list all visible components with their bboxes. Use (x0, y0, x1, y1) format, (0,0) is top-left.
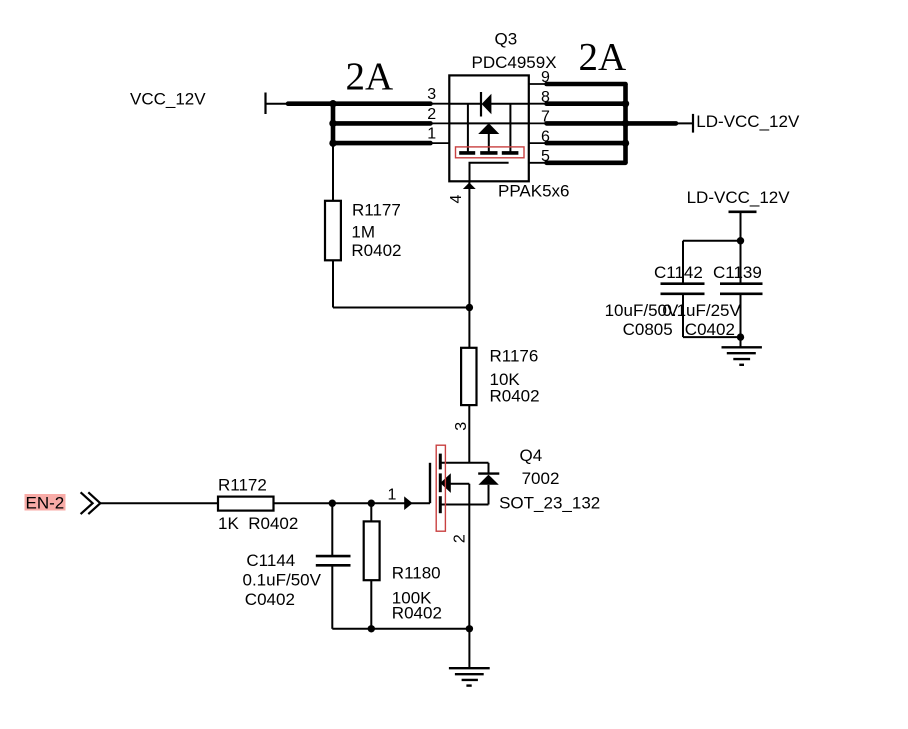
svg-text:SOT_23_132: SOT_23_132 (499, 493, 600, 512)
svg-text:4: 4 (448, 194, 465, 203)
svg-text:3: 3 (427, 86, 436, 103)
svg-text:C0402: C0402 (685, 320, 735, 339)
svg-text:C1144: C1144 (246, 551, 295, 570)
svg-text:R1172: R1172 (218, 476, 267, 495)
svg-text:3: 3 (453, 422, 470, 431)
svg-text:2: 2 (452, 534, 469, 543)
svg-text:C1139: C1139 (713, 263, 762, 282)
svg-text:1: 1 (427, 126, 436, 143)
svg-text:C0805: C0805 (623, 320, 673, 339)
svg-text:C0402: C0402 (245, 590, 295, 609)
svg-text:R1180: R1180 (392, 564, 441, 583)
svg-text:R1177: R1177 (352, 201, 401, 220)
svg-text:R0402: R0402 (351, 241, 401, 260)
svg-text:0.1uF/25V: 0.1uF/25V (662, 301, 741, 320)
svg-text:PPAK5x6: PPAK5x6 (498, 182, 570, 201)
svg-text:R1176: R1176 (490, 347, 539, 366)
svg-text:C1142: C1142 (654, 263, 703, 282)
svg-text:LD-VCC_12V: LD-VCC_12V (696, 112, 800, 131)
svg-text:R0402: R0402 (490, 387, 540, 406)
svg-text:Q4: Q4 (520, 446, 543, 465)
svg-text:VCC_12V: VCC_12V (130, 90, 206, 109)
svg-text:R0402: R0402 (392, 604, 442, 623)
svg-text:1K R0402: 1K R0402 (218, 514, 298, 533)
svg-text:2A: 2A (579, 35, 627, 78)
svg-text:LD-VCC_12V: LD-VCC_12V (687, 188, 791, 207)
svg-text:EN-2: EN-2 (26, 494, 65, 513)
svg-text:2A: 2A (346, 55, 394, 98)
svg-text:1M: 1M (351, 223, 375, 242)
svg-text:2: 2 (427, 106, 436, 123)
svg-text:7002: 7002 (522, 469, 560, 488)
svg-text:0.1uF/50V: 0.1uF/50V (243, 570, 322, 589)
svg-text:Q3: Q3 (495, 30, 518, 49)
svg-text:1: 1 (388, 486, 397, 503)
